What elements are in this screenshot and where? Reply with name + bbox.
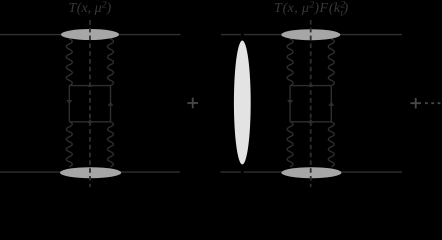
wire: proton line bottom right <box>221 171 241 173</box>
arrow: diagram 1 bottom rung centre (up) <box>88 119 93 124</box>
wire: proton line top left <box>0 34 181 36</box>
blob: diagram 2 top proton blob <box>281 29 340 40</box>
blob: diagram 1 top proton blob <box>61 29 119 40</box>
arrow: diagram 2 right side (up) <box>328 102 334 106</box>
gluon line: diagram 1 upper right <box>108 39 114 86</box>
plus sign far right <box>410 98 421 109</box>
arrow: diagram 1 left side (down) <box>66 100 72 104</box>
quark box: diagram 2 right side <box>330 86 332 122</box>
quark box: diagram 1 right side <box>110 86 112 122</box>
wire: proton line top right <box>221 34 241 36</box>
gluon line: diagram 1 upper left <box>66 39 72 86</box>
quark box: diagram 2 top rung <box>290 85 331 87</box>
gluon line: diagram 1 lower right <box>108 122 114 167</box>
cut line: diagram 2 vertical dashed <box>310 20 312 187</box>
quark box: diagram 2 left side <box>289 86 291 122</box>
quark box: diagram 1 left side <box>68 86 70 122</box>
arrow: diagram 1 top rung centre (up) <box>88 82 93 87</box>
gluon line: diagram 2 upper right <box>328 39 334 86</box>
gluon line: diagram 2 lower right <box>328 122 334 167</box>
cdots after plus <box>425 102 440 104</box>
gluon line: diagram 1 lower left <box>66 122 72 167</box>
gluon line: diagram 2 lower left <box>287 122 293 167</box>
arrow: diagram 2 top rung centre (up) <box>308 82 313 87</box>
plus sign between diagrams <box>187 98 198 109</box>
blob: diagram 1 bottom proton blob <box>60 167 121 178</box>
arrow: diagram 1 right side (up) <box>108 102 114 106</box>
arrow: diagram 2 left side (down) <box>287 100 293 104</box>
wire: proton line bottom left <box>0 171 180 173</box>
blob: diagram 2 bottom proton blob <box>281 167 341 178</box>
gluon line: diagram 2 upper left <box>287 39 293 86</box>
cut line: diagram 1 vertical dashed <box>89 20 91 187</box>
quark box: diagram 2 bottom rung <box>290 121 331 123</box>
blob: tall vertical pomeron blob <box>234 41 251 165</box>
quark box: diagram 1 bottom rung <box>69 121 110 123</box>
arrow: diagram 2 bottom rung centre (up) <box>308 119 313 124</box>
quark box: diagram 1 top rung <box>69 85 110 87</box>
